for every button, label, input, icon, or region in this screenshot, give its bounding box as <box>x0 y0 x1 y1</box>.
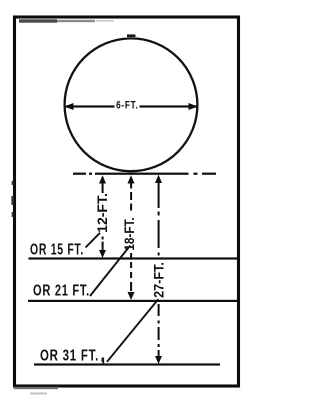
scan smudge below bottom border <box>14 387 58 395</box>
scan nubs on left border <box>11 181 13 217</box>
svg-text:12-FT.: 12-FT. <box>94 193 110 233</box>
dimension line 18-FT vertical dashed <box>128 181 135 301</box>
label OR 15 FT <box>30 241 84 258</box>
dimension line 12-FT vertical <box>99 177 106 258</box>
label 27-FT rotated <box>151 262 167 298</box>
dimension line 27-FT vertical dash-dot <box>155 178 162 364</box>
label 18-FT rotated <box>121 217 137 250</box>
scan smudge under top border <box>19 19 114 22</box>
label OR 31 FT <box>40 347 99 364</box>
svg-text:OR 15 FT.: OR 15 FT. <box>30 241 84 258</box>
leader from OR 15 FT to 12-FT line <box>86 233 101 248</box>
level line OR 21 FT <box>28 300 238 302</box>
tick at circle top <box>127 34 136 37</box>
label 6-FT <box>116 100 138 113</box>
leader from OR 31 FT to 27-FT line <box>107 299 158 362</box>
up arrow at 12-FT line <box>99 175 106 183</box>
frame border <box>15 17 239 386</box>
svg-text:OR 21 FT.: OR 21 FT. <box>33 282 90 299</box>
svg-text:27-FT.: 27-FT. <box>151 262 167 298</box>
balloon circle <box>65 38 198 171</box>
stray comma after OR 31 FT <box>102 358 105 365</box>
svg-text:6-FT.: 6-FT. <box>116 100 138 113</box>
label 12-FT rotated <box>94 193 110 233</box>
center dash-dot line below circle <box>73 173 216 175</box>
label OR 21 FT <box>33 282 90 299</box>
level line OR 31 FT <box>34 363 220 365</box>
dimension 6-FT arrow line <box>64 103 198 110</box>
svg-text:OR 31 FT.: OR 31 FT. <box>40 347 99 364</box>
level line OR 15 FT <box>29 257 239 259</box>
up arrow at 18-FT line <box>128 175 135 183</box>
leader from OR 21 FT to 18-FT line <box>90 246 130 297</box>
up arrow at 27-FT line <box>155 175 162 183</box>
